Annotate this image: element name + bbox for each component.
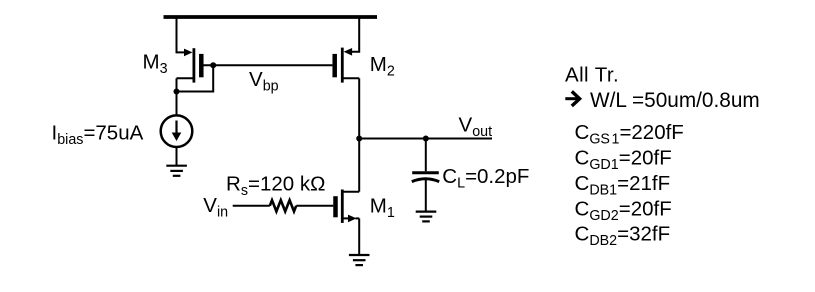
node M3 drain-gate junction [174,89,180,95]
wire M1 drain up to output node [358,139,360,192]
ground (below current source) [166,166,187,176]
node output junction [356,136,362,142]
capacitor CL [412,173,439,182]
wire M2 source to rail [349,17,359,52]
svg-text:M2: M2 [370,53,395,80]
wire resistor to M1 gate [296,205,333,207]
wire Vin to resistor [233,205,270,207]
svg-text:M3: M3 [143,50,168,77]
svg-text:CDB1=21fF: CDB1=21fF [575,172,671,199]
wire M2 drain down to output node [358,78,360,138]
svg-text:All Tr.: All Tr. [565,64,619,87]
VDD supply rail [164,15,378,19]
svg-text:W/L =50um/0.8um: W/L =50um/0.8um [590,89,760,112]
svg-text:CL=0.2pF: CL=0.2pF [442,165,529,192]
svg-text:M1: M1 [370,194,395,221]
svg-text:CGD2=20fF: CGD2=20fF [575,197,672,224]
ground (below CL) [416,212,437,222]
wire M1 source to ground [358,218,360,255]
annotation W/L arrow [565,91,579,106]
node Vbp junction [210,62,216,68]
current source Ibias [161,115,193,147]
svg-text:CGD1=20fF: CGD1=20fF [575,147,672,174]
svg-text:CGS1=220fF: CGS1=220fF [575,121,684,148]
svg-text:CDB2=32fF: CDB2=32fF [575,223,671,250]
transistor M3 [177,48,202,82]
wire Vbp gate bus (M3 gate to M2 gate) [204,64,333,66]
wire diode connection M3 gate to drain [177,65,214,91]
wire M3 source to rail [177,17,188,52]
transistor M1 [336,190,360,223]
svg-text:Rs=120 kΩ: Rs=120 kΩ [226,172,325,199]
svg-text:Vin: Vin [203,194,228,221]
wire M3 drain down to current source [176,78,178,115]
wire CL to ground [425,180,427,212]
resistor Rs [270,200,296,211]
wire output net [359,138,492,140]
wire output node to CL [425,139,427,172]
node CL junction [423,136,429,142]
svg-text:Vbp: Vbp [249,68,279,95]
wire current source to ground [176,147,178,166]
transistor M2 [335,48,360,83]
svg-text:Vout: Vout [459,114,493,141]
ground (below M1) [349,255,370,265]
svg-text:Ibias=75uA: Ibias=75uA [52,121,144,148]
